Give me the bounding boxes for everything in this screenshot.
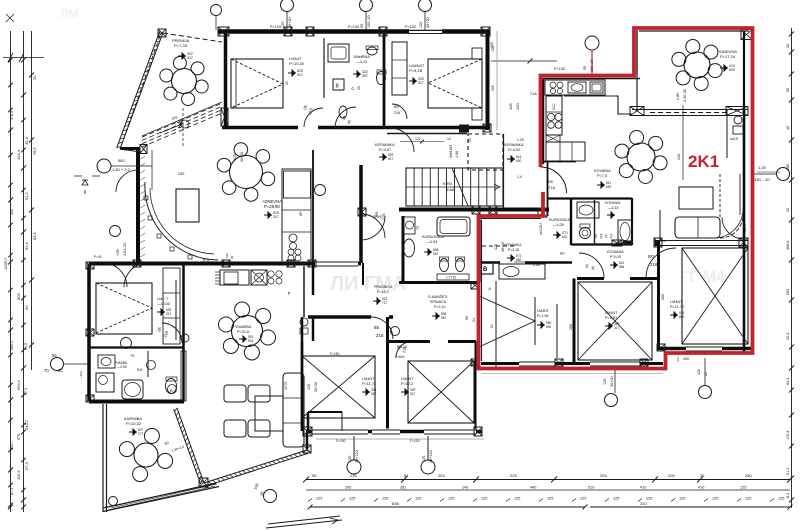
svg-text:PP: PP (560, 252, 565, 256)
svg-text:F: F (288, 291, 291, 296)
svg-text:1,7T15: 1,7T15 (446, 276, 456, 280)
svg-text:119,3: 119,3 (786, 431, 790, 440)
svg-text:P=1,56: P=1,56 (537, 314, 549, 318)
svg-text:125: 125 (646, 497, 652, 501)
svg-text:2K1: 2K1 (688, 152, 719, 171)
svg-text:30+20: 30+20 (288, 17, 292, 28)
svg-text:125: 125 (316, 497, 322, 501)
svg-text:KOVANIA: KOVANIA (607, 250, 624, 254)
svg-text:125: 125 (481, 497, 487, 501)
svg-text:SP.VE: SP.VE (373, 215, 382, 219)
svg-text:57,3: 57,3 (24, 461, 29, 470)
svg-text:317: 317 (187, 56, 193, 60)
svg-text:—2,50: —2,50 (117, 365, 127, 369)
svg-text:KOVANIA: KOVANIA (594, 169, 611, 173)
svg-text:125: 125 (697, 369, 701, 375)
svg-text:1,25: 1,25 (517, 138, 524, 142)
svg-text:216: 216 (609, 233, 613, 239)
svg-text:1,4: 1,4 (517, 175, 522, 179)
svg-text:26: 26 (700, 473, 705, 478)
svg-text:594,2: 594,2 (16, 379, 21, 390)
svg-text:218: 218 (394, 111, 400, 115)
svg-text:125: 125 (580, 497, 586, 501)
svg-text:806: 806 (619, 265, 625, 269)
svg-text:51,3: 51,3 (786, 468, 790, 475)
svg-text:P=31,6: P=31,6 (237, 330, 249, 334)
svg-text:P=10,22: P=10,22 (126, 421, 142, 426)
svg-text:567: 567 (433, 252, 439, 256)
svg-text:30+20: 30+20 (240, 152, 244, 162)
svg-text:84: 84 (404, 473, 409, 478)
svg-text:125: 125 (419, 22, 423, 28)
svg-text:ЛИ ГМА: ЛИ ГМА (330, 273, 406, 295)
svg-text:KOVANIA: KOVANIA (605, 201, 621, 205)
svg-text:225: 225 (510, 473, 517, 478)
svg-text:105: 105 (225, 253, 229, 258)
svg-text:LM4NT: LM4NT (401, 377, 414, 381)
svg-text:250: 250 (745, 473, 752, 478)
svg-text:05: 05 (585, 264, 589, 268)
svg-text:P=2,10: P=2,10 (434, 305, 446, 309)
svg-text:P=18,3: P=18,3 (377, 290, 389, 294)
svg-text:280: 280 (569, 324, 573, 330)
svg-text:F=100: F=100 (336, 439, 346, 443)
svg-text:281: 281 (400, 486, 406, 490)
svg-text:200: 200 (345, 486, 351, 490)
svg-text:260: 260 (661, 294, 665, 300)
svg-text:SeM.MT: SeM.MT (449, 144, 453, 158)
svg-text:580: 580 (118, 158, 125, 163)
svg-text:KCC: KCC (552, 103, 556, 110)
svg-text:600: 600 (729, 68, 735, 72)
svg-text:517: 517 (388, 157, 394, 161)
svg-text:16,75: 16,75 (743, 224, 747, 232)
svg-text:57,3: 57,3 (24, 388, 28, 395)
svg-text:70: 70 (44, 368, 49, 373)
svg-text:119,6: 119,6 (16, 470, 21, 480)
svg-text:125: 125 (422, 456, 426, 462)
svg-text:20: 20 (32, 75, 37, 80)
svg-text:LM4NT: LM4NT (670, 300, 683, 304)
svg-text:wcCCU: wcCCU (539, 223, 543, 235)
svg-text:594,2: 594,2 (10, 341, 14, 350)
svg-text:71A: 71A (548, 185, 555, 190)
svg-text:125: 125 (307, 384, 311, 390)
svg-text:05: 05 (604, 234, 608, 238)
svg-text:122: 122 (415, 137, 421, 141)
svg-text:125: 125 (778, 497, 784, 501)
svg-text:717: 717 (382, 301, 388, 305)
svg-text:30+120: 30+120 (355, 450, 359, 463)
svg-text:1\A8: 1\A8 (446, 187, 455, 192)
svg-text:125: 125 (233, 154, 237, 160)
svg-text:125: 125 (448, 497, 454, 501)
svg-text:20: 20 (468, 138, 472, 142)
svg-text:SPAVAĆA: SPAVAĆA (430, 299, 447, 304)
svg-text:125: 125 (745, 497, 751, 501)
svg-text:P=11,70: P=11,70 (670, 305, 684, 309)
svg-text:P=120: P=120 (270, 25, 281, 29)
svg-text:176,5: 176,5 (10, 111, 14, 120)
svg-text:317: 317 (273, 215, 279, 219)
svg-text:KERAMIKA: KERAMIKA (375, 143, 395, 147)
svg-text:P=11,72: P=11,72 (362, 382, 376, 386)
svg-text:P=29,98: P=29,98 (264, 204, 280, 209)
svg-text:600: 600 (546, 325, 552, 329)
svg-text:75: 75 (416, 226, 420, 230)
svg-text:130: 130 (515, 103, 520, 110)
svg-text:517: 517 (297, 73, 303, 77)
svg-text:416,4: 416,4 (16, 149, 21, 160)
svg-text:125: 125 (382, 497, 388, 501)
svg-text:1,50 + 2,0: 1,50 + 2,0 (112, 167, 131, 172)
svg-text:75: 75 (130, 353, 135, 358)
svg-text:218: 218 (382, 214, 386, 220)
svg-text:410: 410 (698, 486, 704, 490)
svg-text:90: 90 (347, 120, 352, 125)
svg-text:30+20: 30+20 (314, 382, 318, 392)
svg-text:KUPAONICA: KUPAONICA (422, 235, 445, 239)
svg-text:30+20: 30+20 (426, 17, 430, 28)
svg-text:100–20: 100–20 (590, 59, 594, 72)
svg-text:P=12,2: P=12,2 (401, 382, 413, 386)
svg-text:317: 317 (166, 312, 172, 316)
svg-text:12: 12 (490, 324, 494, 328)
svg-text:100: 100 (491, 46, 495, 52)
svg-text:125: 125 (281, 22, 285, 28)
svg-text:B: B (483, 267, 488, 273)
svg-text:55: 55 (52, 353, 57, 358)
svg-text:410: 410 (640, 486, 646, 490)
svg-text:777: 777 (138, 432, 144, 436)
svg-text:90: 90 (591, 266, 595, 270)
svg-text:30: 30 (786, 44, 790, 48)
svg-text:S-MANŽETL: S-MANŽETL (428, 294, 448, 299)
svg-text:05: 05 (594, 234, 598, 238)
svg-text:125: 125 (494, 244, 498, 250)
svg-text:30+20: 30+20 (610, 376, 614, 387)
svg-text:O: O (351, 87, 355, 90)
svg-text:510: 510 (588, 486, 594, 490)
svg-text:218: 218 (533, 262, 540, 267)
svg-text:2C: 2C (58, 368, 63, 373)
svg-text:253: 253 (600, 473, 607, 478)
svg-text:243,7: 243,7 (24, 419, 29, 430)
svg-text:87,3: 87,3 (10, 488, 14, 495)
svg-text:+162: +162 (79, 371, 83, 378)
svg-text:P=4,57: P=4,57 (379, 148, 391, 152)
svg-text:95: 95 (583, 66, 587, 70)
svg-text:92,4: 92,4 (24, 241, 29, 250)
svg-text:40,75: 40,75 (284, 382, 288, 390)
svg-text:90: 90 (230, 255, 234, 259)
svg-text:mILS: mILS (730, 137, 739, 141)
svg-text:85: 85 (374, 325, 380, 330)
svg-text:P 3,13: P 3,13 (397, 345, 407, 349)
svg-text:P=9,2B: P=9,2B (409, 68, 423, 73)
svg-text:—2,23: —2,23 (608, 206, 618, 210)
svg-text:12: 12 (447, 137, 451, 141)
svg-text:125: 125 (603, 379, 607, 385)
svg-text:317: 317 (371, 392, 377, 396)
svg-text:KRM: KRM (443, 181, 452, 186)
svg-text:125: 125 (740, 486, 746, 490)
svg-text:4,00: 4,00 (455, 151, 459, 158)
svg-text:125: 125 (712, 497, 718, 501)
svg-text:243,7: 243,7 (10, 441, 14, 450)
svg-text:218: 218 (650, 262, 658, 267)
svg-text:218: 218 (376, 333, 384, 338)
svg-text:263: 263 (786, 289, 790, 295)
svg-text:440: 440 (530, 486, 536, 490)
svg-text:SP: SP (299, 211, 303, 216)
svg-text:125: 125 (348, 456, 352, 462)
svg-text:+DIABIBA: +DIABIBA (234, 325, 252, 329)
svg-text:660: 660 (516, 258, 522, 262)
svg-text:—4,28: —4,28 (553, 223, 564, 227)
svg-text:45,4: 45,4 (24, 136, 29, 145)
svg-text:2,80: 2,80 (676, 93, 680, 100)
svg-text:1,25: 1,25 (758, 165, 767, 170)
svg-text:125: 125 (349, 497, 355, 501)
svg-text:+05: +05 (115, 248, 120, 256)
svg-text:620: 620 (606, 185, 612, 189)
svg-text:LM4NT: LM4NT (537, 309, 550, 313)
svg-text:P=130: P=130 (348, 25, 359, 29)
svg-text:317: 317 (614, 326, 620, 330)
svg-text:84,4: 84,4 (786, 378, 790, 385)
svg-text:P=7,28: P=7,28 (174, 43, 188, 48)
svg-text:P 5,03: P 5,03 (610, 255, 621, 259)
svg-text:84,5: 84,5 (32, 231, 37, 240)
svg-text:95: 95 (312, 473, 317, 478)
svg-text:638: 638 (392, 501, 399, 506)
svg-text:125: 125 (613, 497, 619, 501)
svg-text:51,2: 51,2 (24, 191, 29, 200)
svg-text:P=45: P=45 (94, 255, 102, 259)
svg-text:B: B (170, 388, 173, 393)
svg-text:P=17,24: P=17,24 (720, 54, 736, 59)
svg-text:100–20: 100–20 (367, 15, 371, 28)
svg-text:KERAMIKA: KERAMIKA (504, 143, 524, 147)
svg-text:8,3: 8,3 (786, 493, 790, 498)
svg-text:P=3,18: P=3,18 (508, 248, 519, 252)
svg-text:620: 620 (562, 235, 568, 239)
svg-text:310: 310 (640, 501, 647, 506)
svg-text:40: 40 (786, 126, 790, 130)
svg-text:400: 400 (683, 357, 689, 361)
svg-text:2,30 2B: 2,30 2B (683, 88, 687, 102)
svg-text:317: 317 (410, 392, 416, 396)
svg-text:130 – 20: 130 – 20 (754, 177, 770, 182)
svg-text:P=9,87: P=9,87 (605, 316, 617, 320)
svg-text:1035,7: 1035,7 (3, 257, 8, 270)
svg-text:ЛМ: ЛМ (60, 7, 78, 21)
svg-text:KUPAONICA: KUPAONICA (549, 218, 571, 222)
svg-text:PRASNICA: PRASNICA (374, 285, 393, 289)
svg-text:140: 140 (462, 486, 468, 490)
svg-text:50: 50 (24, 305, 29, 310)
svg-text:210–20: 210–20 (122, 242, 127, 256)
svg-text:BS: BS (394, 105, 399, 109)
svg-text:84,5: 84,5 (24, 343, 28, 350)
svg-text:105: 105 (546, 179, 553, 184)
svg-text:20: 20 (786, 208, 790, 212)
svg-text:LM4NT: LM4NT (605, 311, 618, 315)
svg-text:600: 600 (516, 159, 522, 163)
svg-text:P=10,20: P=10,20 (289, 61, 305, 66)
svg-text:253: 253 (438, 473, 445, 478)
svg-text:P=130: P=130 (554, 67, 565, 71)
svg-text:P=4,52: P=4,52 (508, 148, 520, 152)
svg-text:125: 125 (415, 497, 421, 501)
svg-text:LM4NT: LM4NT (362, 377, 375, 381)
svg-text:F=150: F=150 (330, 352, 340, 356)
svg-text:24: 24 (472, 318, 476, 322)
svg-text:20,3: 20,3 (786, 333, 790, 340)
svg-text:575: 575 (17, 434, 21, 440)
svg-text:KOVANIA: KOVANIA (394, 340, 410, 344)
svg-text:05: 05 (360, 24, 364, 28)
svg-text:78,5: 78,5 (32, 146, 37, 155)
svg-text:25: 25 (357, 86, 361, 90)
svg-text:P=7,5: P=7,5 (597, 174, 607, 178)
svg-text:30: 30 (285, 81, 289, 85)
svg-text:—4,13: —4,13 (356, 60, 367, 64)
svg-text:240: 240 (178, 172, 184, 176)
svg-text:F=100: F=100 (410, 439, 420, 443)
svg-text:218: 218 (599, 233, 603, 239)
svg-text:1WetRNA: 1WetRNA (353, 55, 370, 59)
svg-text:30+120: 30+120 (429, 450, 433, 463)
svg-text:71A: 71A (530, 92, 537, 96)
svg-text:205: 205 (491, 85, 495, 91)
svg-text:205: 205 (668, 473, 675, 478)
svg-text:303: 303 (10, 209, 14, 215)
svg-text:125: 125 (679, 497, 685, 501)
svg-text:F=600: F=600 (395, 355, 405, 359)
svg-text:KERAMIKA: KERAMIKA (504, 243, 522, 247)
svg-text:R,B: R,B (137, 368, 143, 372)
svg-text:50: 50 (786, 88, 790, 92)
svg-text:—4,93: —4,93 (426, 240, 437, 244)
svg-text:303: 303 (16, 293, 21, 300)
svg-text:567: 567 (441, 316, 447, 320)
svg-text:230: 230 (677, 154, 681, 160)
svg-text:307: 307 (362, 74, 368, 78)
svg-text:368,8: 368,8 (786, 240, 790, 250)
svg-text:125: 125 (547, 497, 553, 501)
svg-text:105: 105 (508, 103, 513, 110)
svg-text:125: 125 (514, 497, 520, 501)
svg-text:317: 317 (418, 81, 424, 85)
svg-text:800: 800 (679, 315, 685, 319)
svg-text:05: 05 (342, 116, 347, 121)
svg-text:90: 90 (465, 316, 469, 320)
svg-text:P=102: P=102 (405, 25, 416, 29)
svg-text:531: 531 (248, 339, 254, 343)
